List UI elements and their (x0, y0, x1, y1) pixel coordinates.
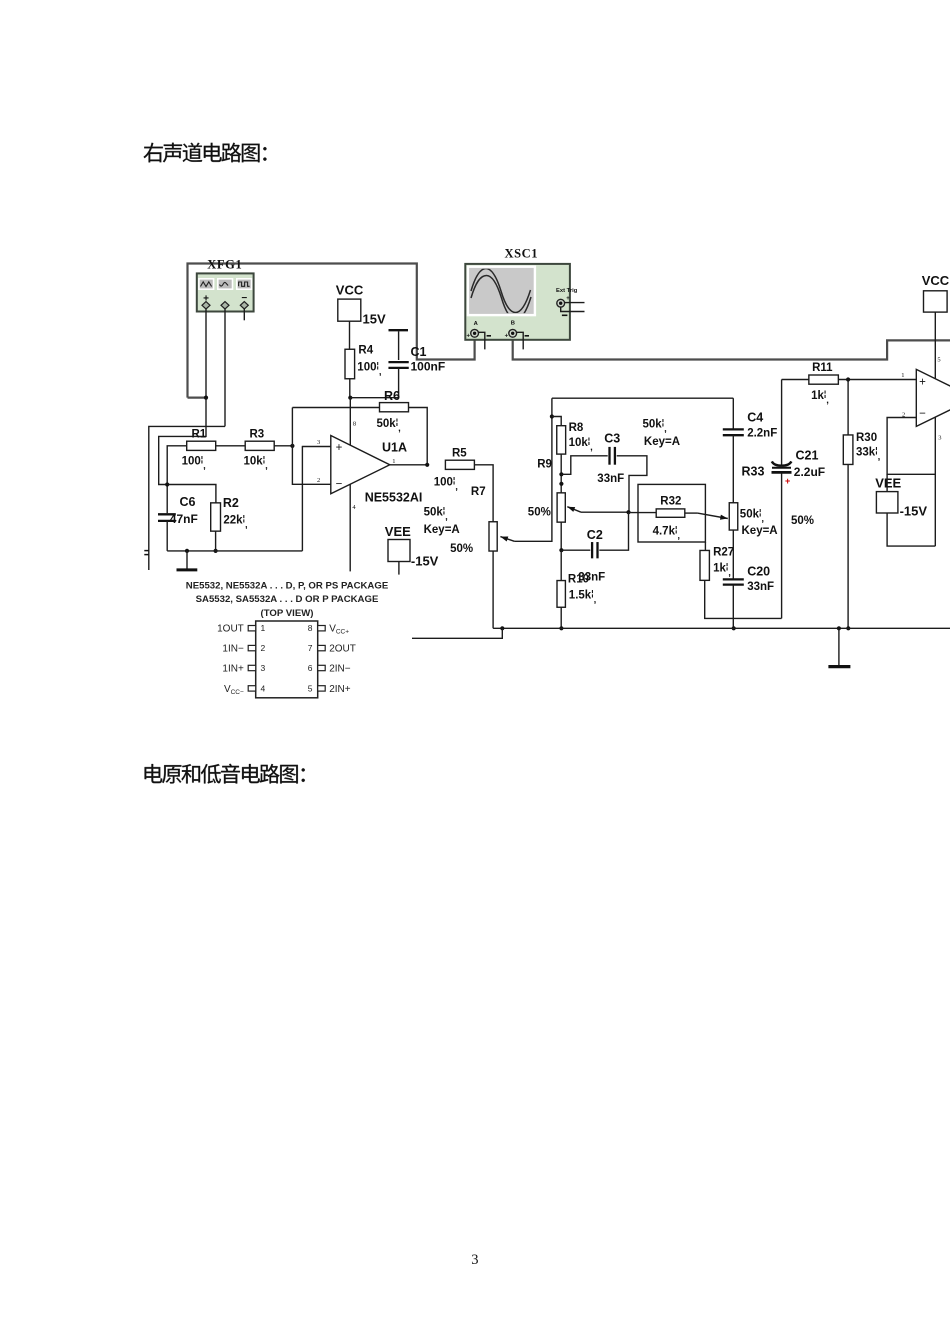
svg-text:50k¦,: 50k¦, (424, 505, 448, 523)
svg-text:2: 2 (902, 412, 905, 419)
svg-text:R2: R2 (223, 496, 239, 510)
svg-text:-15V: -15V (900, 504, 928, 519)
svg-text:1: 1 (392, 458, 395, 465)
svg-text:VCC: VCC (922, 273, 950, 288)
svg-text:2OUT: 2OUT (329, 644, 356, 655)
svg-text:2: 2 (261, 643, 266, 653)
svg-text:+: + (919, 377, 926, 389)
svg-text:10k¦,: 10k¦, (244, 454, 268, 472)
svg-text:R11: R11 (812, 362, 833, 374)
svg-text:R10: R10 (568, 574, 589, 586)
svg-text:R32: R32 (660, 496, 681, 508)
svg-text:XFG1: XFG1 (207, 258, 242, 272)
svg-text:VCC+: VCC+ (329, 624, 349, 636)
svg-text:VEE: VEE (875, 476, 901, 491)
svg-text:+: + (467, 334, 471, 340)
svg-text:100¦,: 100¦, (182, 454, 206, 472)
svg-text:2IN−: 2IN− (329, 664, 351, 675)
svg-text:R7: R7 (471, 486, 486, 498)
svg-text:1: 1 (261, 623, 266, 633)
svg-text:R1: R1 (192, 429, 207, 441)
svg-text:5: 5 (937, 357, 940, 364)
svg-text:VCC: VCC (336, 283, 364, 298)
svg-text:C2: C2 (587, 528, 603, 542)
svg-text:C6: C6 (180, 495, 196, 509)
svg-text:3: 3 (261, 663, 266, 673)
svg-text:R27: R27 (713, 547, 734, 559)
svg-text:6: 6 (308, 663, 313, 673)
svg-text:B: B (511, 321, 515, 327)
svg-text:100nF: 100nF (411, 360, 446, 374)
svg-text:+: + (785, 476, 790, 486)
svg-text:R30: R30 (856, 432, 877, 444)
svg-text:5: 5 (308, 683, 313, 693)
svg-text:3: 3 (317, 439, 320, 446)
svg-text:Key=A: Key=A (742, 525, 778, 537)
svg-text:Ext Trig: Ext Trig (556, 288, 578, 294)
svg-text:1k¦,: 1k¦, (713, 561, 731, 579)
svg-text:10k¦,: 10k¦, (569, 436, 593, 454)
svg-text:1IN+: 1IN+ (222, 664, 244, 675)
svg-text:+: + (505, 334, 509, 340)
svg-text:R5: R5 (452, 448, 467, 460)
svg-text:SA5532, SA5532A . . . D OR P P: SA5532, SA5532A . . . D OR P PACKAGE (196, 594, 379, 605)
svg-text:3: 3 (471, 1252, 478, 1268)
svg-text:47nF: 47nF (170, 512, 198, 526)
svg-text:50k¦,: 50k¦, (740, 507, 764, 525)
svg-text:100¦,: 100¦, (357, 360, 381, 378)
svg-text:8: 8 (353, 420, 356, 427)
svg-text:50k¦,: 50k¦, (377, 417, 401, 435)
svg-text:C4: C4 (747, 411, 763, 425)
svg-text:1IN−: 1IN− (222, 644, 244, 655)
svg-text:-15V: -15V (411, 554, 439, 569)
svg-text:100¦,: 100¦, (434, 475, 458, 493)
svg-text:7: 7 (308, 643, 313, 653)
svg-text:−: − (919, 408, 926, 420)
svg-text:U1A: U1A (382, 441, 407, 455)
svg-text:+: + (336, 442, 343, 454)
svg-text:8: 8 (308, 623, 313, 633)
svg-text:1OUT: 1OUT (217, 624, 244, 635)
svg-text:C20: C20 (747, 565, 770, 579)
svg-text:Key=A: Key=A (644, 436, 680, 448)
svg-text:50%: 50% (450, 543, 473, 555)
svg-text:NE5532, NE5532A . . . D, P, OR: NE5532, NE5532A . . . D, P, OR PS PACKAG… (186, 581, 389, 592)
svg-text:R33: R33 (742, 465, 765, 479)
svg-text:4: 4 (352, 504, 356, 511)
svg-text:33nF: 33nF (597, 473, 624, 485)
svg-text:33nF: 33nF (747, 581, 774, 593)
svg-text:2IN+: 2IN+ (329, 684, 351, 695)
svg-text:1.5k¦,: 1.5k¦, (569, 588, 596, 606)
svg-text:15V: 15V (363, 312, 386, 327)
svg-text:1k¦,: 1k¦, (811, 388, 829, 406)
svg-text:(TOP VIEW): (TOP VIEW) (261, 608, 314, 619)
svg-text:R9: R9 (537, 459, 552, 471)
svg-text:33k¦,: 33k¦, (856, 445, 880, 463)
svg-text:NE5532AI: NE5532AI (365, 491, 423, 505)
svg-text:R6: R6 (384, 389, 400, 403)
svg-text:+: + (566, 296, 570, 302)
svg-text:VEE: VEE (385, 524, 411, 539)
svg-text:50%: 50% (528, 507, 551, 519)
svg-text:1: 1 (901, 372, 904, 379)
svg-text:2.2nF: 2.2nF (747, 427, 777, 439)
svg-text:4.7k¦,: 4.7k¦, (653, 524, 680, 542)
svg-text:C1: C1 (411, 345, 427, 359)
svg-text:3: 3 (938, 435, 941, 442)
svg-text:VCC−: VCC− (224, 684, 244, 696)
svg-text:22k¦,: 22k¦, (223, 513, 247, 531)
svg-text:−: − (336, 479, 343, 491)
svg-text:Key=A: Key=A (424, 524, 460, 536)
svg-text:50%: 50% (791, 515, 814, 527)
svg-text:2.2uF: 2.2uF (794, 465, 825, 479)
svg-text:R4: R4 (358, 345, 373, 357)
svg-text:C21: C21 (796, 449, 819, 463)
svg-text:4: 4 (261, 683, 266, 693)
svg-text:50k¦,: 50k¦, (643, 417, 667, 435)
svg-text:2: 2 (317, 477, 320, 484)
svg-text:C3: C3 (604, 432, 620, 446)
svg-text:XSC1: XSC1 (504, 247, 538, 261)
svg-text:R8: R8 (569, 422, 584, 434)
svg-text:R3: R3 (250, 429, 265, 441)
